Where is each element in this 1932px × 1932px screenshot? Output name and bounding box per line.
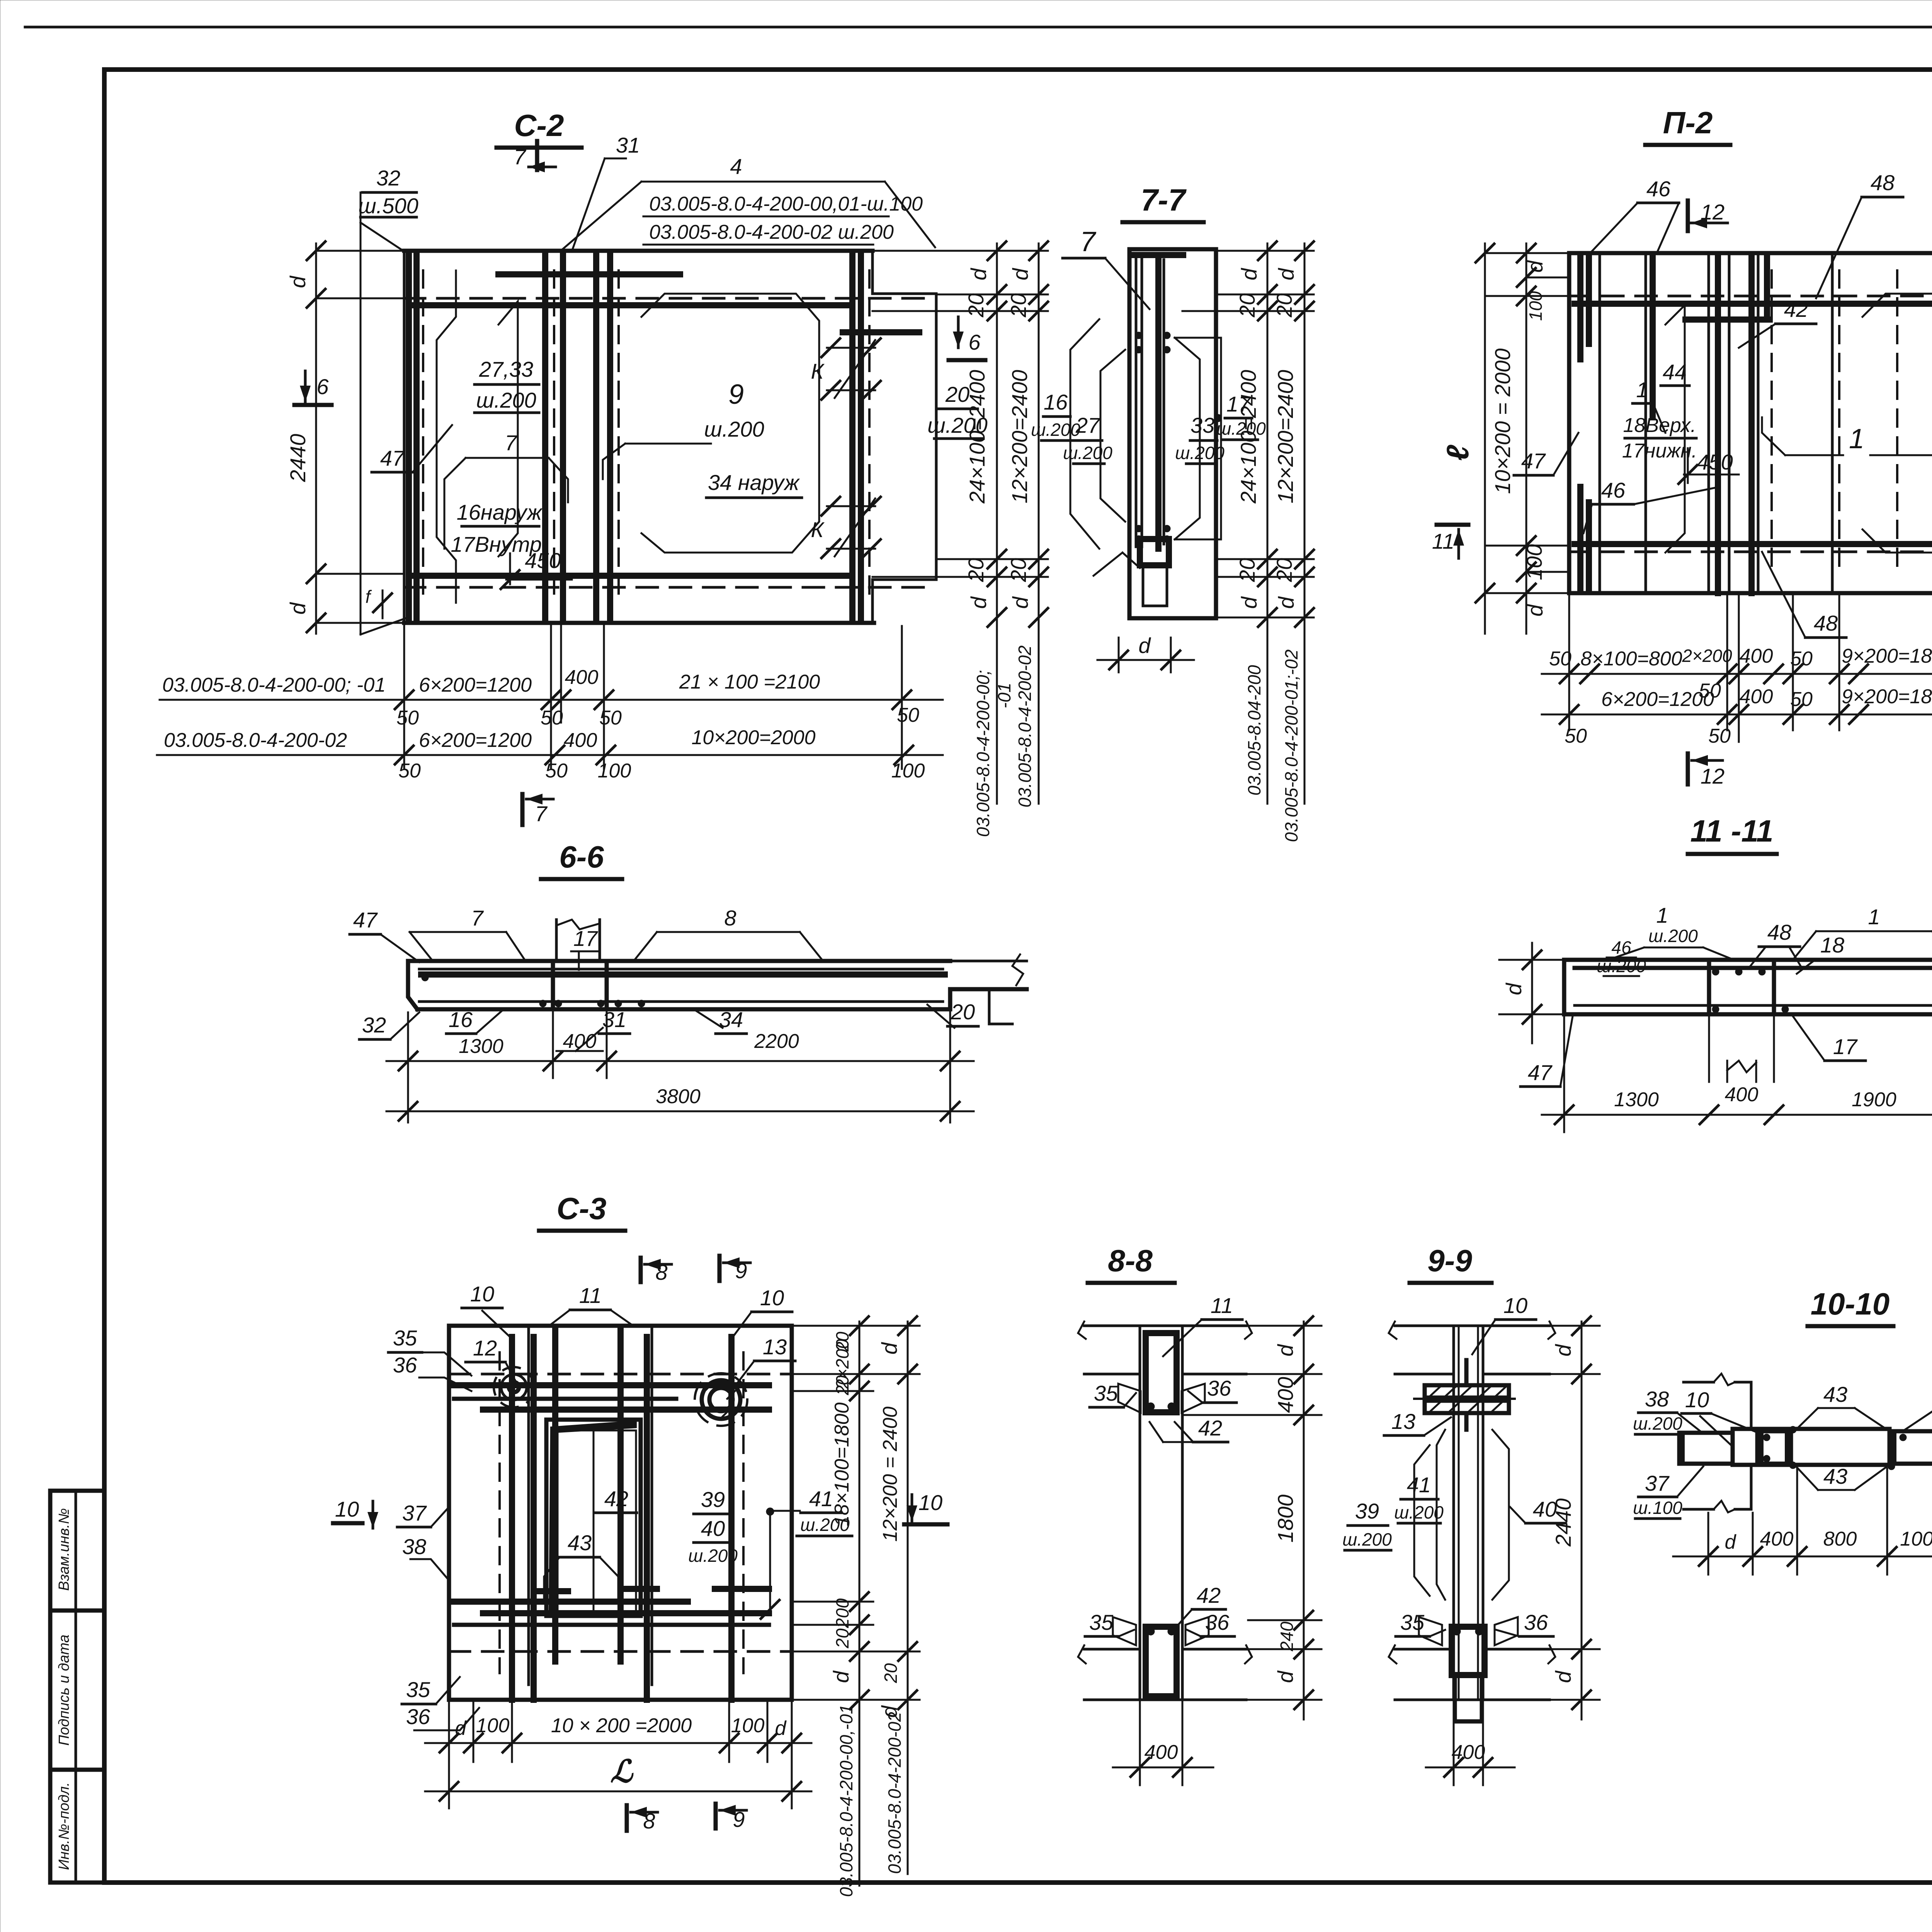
svg-text:d: d: [1008, 268, 1032, 281]
svg-text:d: d: [1008, 596, 1032, 609]
C-3 door mid line: [593, 1430, 595, 1612]
9-9 top slab break marks: [1389, 1321, 1396, 1339]
svg-text:12: 12: [1701, 764, 1725, 788]
svg-text:13: 13: [1391, 1409, 1415, 1434]
svg-text:35: 35: [1089, 1610, 1114, 1634]
svg-text:ш.100: ш.100: [1633, 1498, 1682, 1518]
svg-text:4: 4: [730, 154, 742, 179]
right dashed vertical: [868, 270, 871, 603]
right vertical rebar bars: [849, 255, 855, 620]
svg-text:10 × 200 =2000: 10 × 200 =2000: [551, 1714, 692, 1737]
svg-text:d: d: [775, 1717, 787, 1740]
section marker 9 top: [718, 1256, 722, 1281]
opening outline left inside C-2: [437, 270, 456, 603]
svg-text:37: 37: [402, 1501, 427, 1525]
svg-text:46: 46: [1646, 177, 1671, 201]
svg-text:9-9: 9-9: [1427, 1243, 1472, 1278]
8-8 top slab lines: [1084, 1325, 1246, 1327]
svg-text:18×100=1800: 18×100=1800: [831, 1402, 853, 1526]
9-9 bottom dimension 400: [1426, 1767, 1515, 1769]
svg-text:16: 16: [1044, 390, 1068, 414]
svg-text:ш.200: ш.200: [1031, 420, 1080, 440]
svg-text:10: 10: [335, 1497, 359, 1521]
svg-text:400: 400: [1760, 1528, 1794, 1550]
11-11 inner rebar lines: [1575, 966, 1932, 970]
svg-text:39: 39: [1355, 1499, 1379, 1523]
svg-text:27,33: 27,33: [479, 357, 533, 381]
7-7 wall band verticals: [1135, 255, 1138, 547]
svg-text:12: 12: [1701, 200, 1725, 224]
svg-text:ш.200: ш.200: [1063, 443, 1112, 463]
svg-text:d: d: [1551, 1344, 1575, 1357]
section marker 8 bottom: [625, 1805, 629, 1831]
svg-text:1: 1: [1868, 905, 1880, 929]
svg-text:50: 50: [396, 707, 419, 729]
7-7 bottom U channel detail: [1140, 539, 1169, 565]
svg-text:03.005-8.0-4-200-00,-01: 03.005-8.0-4-200-00,-01: [836, 1704, 856, 1897]
8-8 wing plates bottom: [1113, 1617, 1136, 1645]
svg-text:20: 20: [964, 558, 988, 582]
svg-text:ш.200: ш.200: [688, 1546, 738, 1566]
svg-text:2200: 2200: [754, 1030, 799, 1053]
extension line from label 32: [360, 192, 362, 634]
svg-text:38: 38: [402, 1534, 426, 1559]
svg-text:П-2: П-2: [1663, 105, 1713, 140]
8-8 bottom dimension 400: [1113, 1767, 1213, 1769]
svg-text:11: 11: [1211, 1293, 1233, 1318]
svg-text:450: 450: [1697, 450, 1733, 474]
C-2 bottom dimension row 2: [157, 754, 943, 756]
svg-text:31: 31: [616, 133, 640, 157]
10-10 left rebar box: [1679, 1433, 1733, 1464]
8-8 top rebar cage: [1146, 1333, 1177, 1412]
svg-text:d: d: [1523, 604, 1547, 617]
svg-text:1: 1: [1849, 423, 1864, 454]
hidden dashed line top: [404, 297, 935, 300]
P-2 bottom dimension row 2: [1542, 714, 1932, 716]
opening outline mid inside C-2: [498, 301, 518, 556]
svg-text:ш.200: ш.200: [476, 388, 536, 412]
svg-text:10: 10: [760, 1286, 784, 1310]
short heavy bar right near top: [843, 329, 919, 335]
svg-text:50: 50: [398, 760, 421, 782]
svg-text:100: 100: [598, 760, 631, 782]
9-9 top slab lines: [1395, 1325, 1549, 1327]
svg-text:f: f: [366, 587, 372, 607]
svg-text:100: 100: [891, 760, 925, 782]
svg-text:ш.200: ш.200: [1342, 1529, 1392, 1549]
7-7 right dimension column 2: [1304, 243, 1306, 804]
svg-text:50: 50: [545, 760, 568, 782]
svg-text:43: 43: [1823, 1464, 1847, 1488]
svg-text:18: 18: [1820, 933, 1844, 957]
svg-text:7: 7: [471, 906, 484, 930]
svg-text:8-8: 8-8: [1108, 1243, 1153, 1278]
svg-text:400: 400: [564, 729, 597, 752]
left edge vertical rebar bars: [406, 255, 412, 620]
svg-text:48: 48: [1871, 170, 1895, 195]
left dimension line of C-2: [315, 243, 317, 634]
svg-text:11: 11: [1432, 529, 1454, 553]
svg-text:9×200=1800: 9×200=1800: [1842, 645, 1932, 667]
C-3 second horizontal bar: [483, 1406, 769, 1413]
10-10 bottom-left wall line with break: [1684, 1508, 1714, 1511]
svg-text:d: d: [1551, 1670, 1575, 1683]
svg-text:100: 100: [476, 1714, 510, 1737]
svg-text:03.005-8.0-4-200-00;: 03.005-8.0-4-200-00;: [973, 670, 993, 837]
svg-text:47: 47: [353, 908, 378, 932]
svg-text:6×200=1200: 6×200=1200: [419, 729, 532, 752]
mid vertical rebar bars pair 2: [593, 255, 599, 620]
svg-text:6: 6: [968, 330, 981, 354]
C-3 small circle top left: [509, 1382, 519, 1392]
panel C-2 right edge with notch: [872, 251, 936, 294]
6-6 mid pier verticals: [551, 961, 555, 1009]
C-3 bottom horizontal bars: [454, 1599, 688, 1605]
svg-text:d: d: [966, 268, 991, 281]
svg-text:100: 100: [1522, 544, 1546, 580]
mid dashed vertical 1: [553, 270, 555, 603]
panel C-2 top edge extension to dim columns: [872, 250, 1048, 252]
mid dashed vertical 2: [617, 270, 620, 603]
P-2 top hidden dashed line: [1569, 295, 1932, 298]
svg-text:50: 50: [897, 704, 919, 726]
svg-text:03.005-8.04-200: 03.005-8.04-200: [1244, 665, 1264, 796]
9-9 bottom slab lines: [1395, 1648, 1452, 1651]
svg-text:d: d: [1725, 1531, 1737, 1553]
svg-text:39: 39: [701, 1487, 725, 1512]
panel C-2 top edge: [404, 249, 872, 253]
8-8 bottom slab lines: [1084, 1648, 1140, 1651]
svg-text:1800: 1800: [1273, 1495, 1298, 1543]
extension lines top-right step: [936, 294, 1048, 296]
P-2 mid dashed vertical: [1838, 270, 1840, 576]
C-3 panel outline: [449, 1326, 792, 1700]
svg-text:ш.500: ш.500: [358, 194, 418, 218]
svg-text:1000: 1000: [1900, 1528, 1932, 1550]
svg-text:24×100=2400: 24×100=2400: [965, 370, 989, 504]
svg-text:100: 100: [1526, 291, 1546, 321]
svg-text:ш.200: ш.200: [704, 417, 764, 441]
svg-text:К: К: [811, 517, 825, 542]
panel C-2 bottom edge: [404, 621, 874, 625]
P-2 vertical line grid: [1599, 253, 1601, 593]
svg-text:37: 37: [1645, 1471, 1670, 1495]
left dashed bar: [422, 270, 424, 603]
svg-text:20: 20: [881, 1663, 901, 1684]
11-11 left dimension d: [1531, 943, 1533, 1043]
C-2 bottom dimension row 1: [160, 699, 943, 701]
svg-text:11 -11: 11 -11: [1690, 814, 1774, 848]
svg-text:7: 7: [505, 430, 517, 455]
svg-text:9: 9: [728, 379, 744, 410]
svg-text:47: 47: [380, 446, 405, 470]
svg-text:35: 35: [406, 1677, 430, 1702]
svg-text:ш.200: ш.200: [1597, 956, 1646, 976]
svg-text:20: 20: [832, 1628, 852, 1649]
svg-text:32: 32: [362, 1013, 386, 1037]
svg-text:20: 20: [1272, 293, 1296, 318]
svg-text:11: 11: [579, 1283, 602, 1308]
svg-text:1: 1: [1636, 378, 1648, 402]
svg-text:43: 43: [1823, 1382, 1847, 1406]
svg-text:36: 36: [393, 1353, 417, 1377]
svg-text:20: 20: [1235, 293, 1259, 318]
svg-text:50: 50: [1549, 648, 1571, 670]
svg-text:10-10: 10-10: [1811, 1287, 1890, 1321]
svg-text:10: 10: [1503, 1293, 1527, 1318]
C-3 big circle top right: [709, 1388, 733, 1411]
C-3 bottom dimension row 2 L: [425, 1791, 811, 1793]
P-2 left dimension column inner: [1526, 243, 1527, 634]
svg-text:6×200=1200: 6×200=1200: [419, 674, 532, 696]
section marker 11 left: [1437, 523, 1468, 527]
extension verticals below C-2: [403, 623, 405, 769]
svg-text:240: 240: [1277, 1621, 1297, 1651]
svg-text:12×200=2400: 12×200=2400: [1273, 370, 1298, 503]
C-3 bottom dimension row 1: [425, 1742, 811, 1744]
10-10 band bottom edge: [1733, 1463, 1889, 1467]
8-8 right dimension column: [1303, 1321, 1305, 1719]
svg-text:-01: -01: [994, 683, 1014, 708]
9-9 wing plates bottom: [1419, 1617, 1442, 1645]
svg-text:48: 48: [1814, 611, 1838, 635]
9-9 leader hexagon right: [1492, 1430, 1509, 1600]
10-10 bottom dimension: [1673, 1556, 1932, 1558]
P-2 left dimension column outer: [1484, 243, 1486, 634]
svg-text:36: 36: [1524, 1610, 1548, 1634]
svg-text:16наруж: 16наруж: [457, 500, 543, 524]
6-6 left end: [408, 961, 417, 1009]
8-8 wing plates top: [1118, 1384, 1141, 1413]
svg-text:400: 400: [1725, 1083, 1759, 1106]
P-2 bottom hidden dashed line: [1569, 551, 1932, 553]
9-9 bottom rebar cage: [1452, 1627, 1485, 1675]
mid vertical rebar bars pair 1: [542, 255, 548, 620]
9-9 bottom column piece: [1455, 1675, 1482, 1721]
svg-text:ш.200: ш.200: [1633, 1413, 1682, 1434]
11-11 rebar dots: [1712, 968, 1719, 975]
C-2 right dimension column 2: [1038, 243, 1040, 804]
svg-text:d: d: [829, 1670, 853, 1683]
svg-text:d: d: [1273, 1670, 1298, 1683]
svg-text:С-2: С-2: [514, 108, 564, 143]
7-7 right leader hexagon slanted: [1175, 338, 1200, 539]
svg-text:400: 400: [1740, 685, 1773, 708]
svg-text:20: 20: [1006, 293, 1031, 318]
10-10 top-left wall line with break: [1684, 1381, 1714, 1384]
svg-text:03.005-8.0-4-200-00,01-ш.100: 03.005-8.0-4-200-00,01-ш.100: [649, 193, 923, 215]
svg-text:400: 400: [1740, 645, 1773, 667]
7-7 right dimension column 1: [1267, 243, 1269, 804]
svg-text:40: 40: [701, 1516, 725, 1541]
9-9 cage dots: [1453, 1628, 1461, 1635]
svg-text:С-3: С-3: [557, 1191, 607, 1226]
8-8 bottom slab break marks: [1078, 1645, 1086, 1663]
7-7 rebar dots: [1135, 332, 1142, 339]
svg-text:d: d: [1138, 633, 1151, 658]
svg-text:400: 400: [1145, 1741, 1178, 1764]
svg-text:24×100=2400: 24×100=2400: [1236, 370, 1260, 504]
P-2 bent rebar hook: [1764, 255, 1770, 317]
P-2 extension verticals below: [1568, 595, 1570, 730]
C-3 door opening outer frame: [546, 1420, 641, 1616]
9-9 leader hexagon left: [1414, 1445, 1430, 1596]
svg-text:10×200=2000: 10×200=2000: [691, 726, 815, 749]
svg-text:44: 44: [1663, 360, 1687, 384]
svg-text:20: 20: [1235, 558, 1259, 582]
svg-text:2×200: 2×200: [1682, 646, 1732, 666]
svg-text:d: d: [1274, 596, 1298, 609]
svg-text:Взам.инв.№: Взам.инв.№: [56, 1508, 72, 1591]
svg-text:d: d: [877, 1342, 901, 1355]
svg-text:8: 8: [724, 906, 736, 930]
8-8 bottom rebar cage: [1146, 1627, 1177, 1696]
6-6 rebar dots: [539, 1000, 546, 1007]
svg-text:42: 42: [604, 1486, 628, 1511]
svg-text:17: 17: [1833, 1034, 1858, 1059]
svg-text:38: 38: [1645, 1387, 1669, 1411]
svg-text:12: 12: [473, 1336, 497, 1360]
svg-text:7: 7: [535, 801, 548, 826]
svg-text:13: 13: [763, 1335, 787, 1359]
6-6 slab outline bottom: [417, 1007, 950, 1012]
C-3 top hidden dashed line: [449, 1373, 792, 1376]
svg-text:03.005-8.0-4-200-02: 03.005-8.0-4-200-02: [884, 1712, 905, 1874]
short cross bars top middle: [498, 271, 680, 277]
svg-text:35: 35: [1400, 1610, 1425, 1634]
svg-text:47: 47: [1528, 1060, 1553, 1085]
svg-text:400: 400: [563, 1030, 597, 1053]
svg-text:6: 6: [316, 374, 329, 399]
section marker 7 bottom: [520, 794, 525, 825]
svg-text:16: 16: [449, 1007, 473, 1032]
svg-text:17: 17: [573, 926, 598, 951]
svg-text:d: d: [286, 276, 310, 288]
svg-text:d: d: [966, 596, 991, 609]
svg-text:800: 800: [1823, 1528, 1857, 1550]
marker 6 down-left: [304, 371, 307, 402]
svg-text:1: 1: [1656, 903, 1668, 927]
10-10 extension verticals: [1708, 1513, 1709, 1575]
7-7 right leader hexagon outer: [1175, 338, 1221, 539]
svg-text:400: 400: [1273, 1377, 1298, 1413]
section marker 12 bottom: [1686, 753, 1690, 784]
svg-text:20: 20: [951, 1000, 975, 1024]
svg-text:12×200=2400: 12×200=2400: [1007, 370, 1032, 503]
P-2 top rebar line: [1575, 301, 1932, 307]
svg-text:7: 7: [1080, 226, 1097, 257]
svg-text:10: 10: [918, 1490, 942, 1515]
7-7 left leader hexagon inner: [1100, 350, 1125, 522]
svg-text:1300: 1300: [1614, 1088, 1659, 1111]
section marker 9 bottom: [714, 1804, 718, 1828]
section marker 7 top: [535, 141, 539, 170]
extension lines bottom-right step: [936, 558, 1048, 560]
svg-text:8: 8: [655, 1260, 667, 1284]
svg-text:7: 7: [514, 145, 526, 169]
svg-text:20: 20: [832, 1375, 852, 1396]
P-2 opening outline right: [1862, 294, 1932, 553]
svg-text:8×100=800: 8×100=800: [1580, 648, 1682, 670]
C-3 dashed verticals: [498, 1352, 501, 1673]
top horizontal rebar line: [410, 302, 846, 308]
9-9 column verticals: [1452, 1326, 1455, 1700]
P-2 bottom rebar line: [1575, 541, 1932, 547]
bottom horizontal rebar line: [410, 573, 846, 579]
C-3 door leaf thick wedge: [549, 1420, 637, 1611]
svg-text:34 наруж: 34 наруж: [708, 470, 800, 495]
svg-text:48: 48: [1767, 920, 1791, 944]
9-9 pin bars: [1464, 1360, 1469, 1385]
C-3 extension verticals below: [448, 1702, 450, 1808]
svg-text:32: 32: [376, 166, 400, 190]
svg-text:Подпись и дата: Подпись и дата: [56, 1634, 72, 1745]
svg-text:03.005-8.0-4-200-02: 03.005-8.0-4-200-02: [1015, 645, 1035, 807]
svg-text:d: d: [1502, 983, 1526, 995]
svg-text:03.005-8.0-4-200-01;-02: 03.005-8.0-4-200-01;-02: [1281, 650, 1301, 842]
svg-text:100: 100: [731, 1714, 765, 1737]
svg-text:d: d: [1273, 1344, 1298, 1357]
svg-text:03.005-8.0-4-200-02: 03.005-8.0-4-200-02: [164, 729, 347, 752]
hidden dashed line bottom: [404, 586, 935, 589]
C-3 vertical bars: [509, 1337, 515, 1700]
P-2 panel outline: [1569, 253, 1932, 593]
svg-text:33: 33: [1190, 413, 1214, 437]
9-9 flange plates with centerline: [1425, 1385, 1509, 1398]
9-9 bottom slab break marks: [1389, 1645, 1396, 1663]
P-2 left vertical bars top: [1577, 255, 1583, 359]
svg-text:9: 9: [733, 1807, 745, 1832]
section marker 8 top: [639, 1258, 643, 1282]
opening outline right inside C-2: [641, 294, 819, 553]
svg-text:10: 10: [470, 1282, 494, 1306]
svg-text:ℓ: ℓ: [1440, 445, 1475, 461]
svg-text:50: 50: [599, 707, 622, 729]
extension lines 7-7 to columns: [1216, 250, 1314, 252]
svg-text:36: 36: [406, 1704, 430, 1729]
svg-text:43: 43: [568, 1531, 592, 1555]
svg-text:ш.200: ш.200: [1394, 1502, 1444, 1522]
svg-text:12×200 = 2400: 12×200 = 2400: [879, 1406, 901, 1542]
svg-text:d: d: [1237, 596, 1261, 609]
svg-text:1300: 1300: [459, 1035, 503, 1058]
C-3 door inner frame: [558, 1430, 636, 1612]
svg-text:35: 35: [1094, 1381, 1118, 1405]
svg-text:18Верх.: 18Верх.: [1623, 414, 1696, 437]
C-3 top horizontal bars: [454, 1382, 769, 1388]
left stamp box Inv.N podl.: [50, 1770, 104, 1883]
svg-text:21 × 100 =2100: 21 × 100 =2100: [679, 671, 820, 693]
6-6 right hook down: [989, 989, 1012, 1024]
10-10 band top edge: [1733, 1427, 1889, 1431]
outer border top line: [25, 26, 1932, 29]
7-7 left leader hexagon outer: [1070, 319, 1099, 549]
svg-text:46: 46: [1601, 478, 1626, 502]
11-11 bottom dimension: [1542, 1114, 1932, 1116]
svg-text:Инв.№-подл.: Инв.№-подл.: [56, 1782, 72, 1870]
svg-text:9: 9: [735, 1259, 747, 1283]
svg-text:400: 400: [565, 666, 599, 689]
svg-text:d: d: [1237, 268, 1261, 281]
6-6 inner rebar lines: [419, 968, 943, 971]
C-3 short heavy marks bottom area: [539, 1588, 568, 1594]
svg-text:1900: 1900: [1852, 1088, 1896, 1111]
svg-text:35: 35: [393, 1326, 417, 1350]
left stamp box Vzam.inv.N: [50, 1491, 104, 1611]
svg-text:47: 47: [1521, 449, 1546, 473]
svg-text:7-7: 7-7: [1141, 183, 1187, 217]
